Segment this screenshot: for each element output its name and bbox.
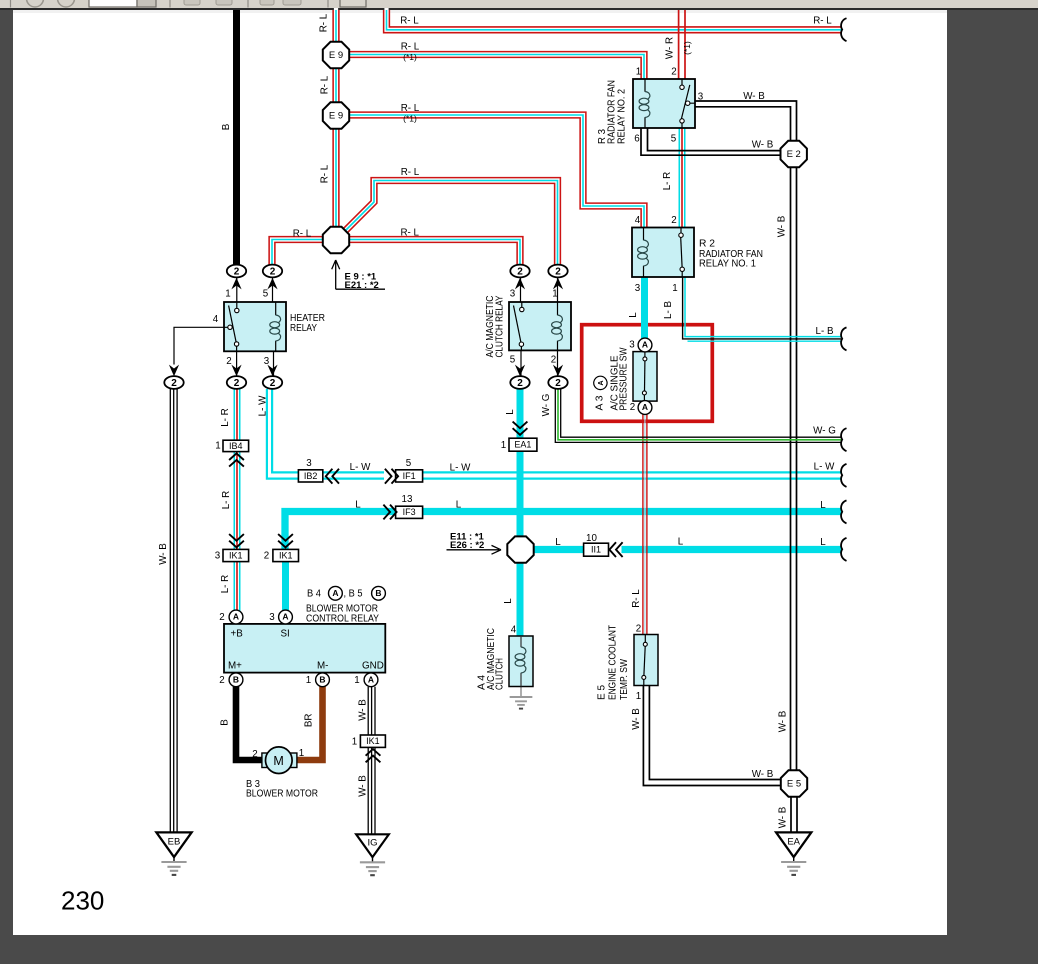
svg-text:L: L	[678, 537, 684, 548]
svg-text:, B 5: , B 5	[344, 589, 363, 600]
svg-text:L: L	[555, 537, 561, 548]
arrow into heater pin2 oval	[231, 365, 241, 377]
wire R-L E9 upper to R3 pin1	[349, 55, 644, 81]
svg-text:(*1): (*1)	[682, 41, 692, 55]
svg-text:W- B: W- B	[158, 543, 169, 565]
wire L thick A/C relay pin5 to EA1	[517, 389, 524, 439]
svg-text:W- R: W- R	[665, 37, 676, 59]
svg-text:L- B: L- B	[663, 301, 674, 319]
svg-text:IF1: IF1	[403, 471, 416, 481]
svg-text:5: 5	[671, 134, 677, 145]
wire R-L top corner to right edge	[387, 8, 843, 30]
arrow into heater pin5	[267, 278, 277, 290]
svg-text:RELAY NO. 1: RELAY NO. 1	[699, 259, 756, 270]
svg-text:2: 2	[630, 402, 635, 413]
svg-text:W- B: W- B	[778, 806, 789, 828]
svg-text:3: 3	[635, 283, 641, 294]
svg-text:IK1: IK1	[229, 550, 243, 560]
svg-text:BR: BR	[304, 713, 315, 727]
svg-text:M+: M+	[228, 661, 242, 672]
svg-text:L- W: L- W	[350, 462, 371, 473]
svg-text:L: L	[456, 500, 462, 511]
svg-text:L- W: L- W	[258, 395, 269, 416]
wire L thick IK1 to blower relay pin3	[282, 562, 289, 611]
svg-text:W- B: W- B	[357, 699, 368, 721]
svg-text:A: A	[332, 588, 338, 598]
pin stubs between ovals and relay boxes	[237, 278, 558, 377]
arrow into A/C pin3	[515, 278, 525, 290]
svg-text:W- B: W- B	[777, 215, 788, 237]
wire L thick junction to II1	[534, 546, 585, 553]
svg-text:A: A	[368, 675, 374, 685]
arrow into A/C pin5 oval	[515, 365, 525, 377]
connector oval 2 heater pin4 branch	[164, 376, 183, 389]
connector oval 2 heater pin1	[227, 265, 246, 278]
ground triangle EB	[156, 832, 191, 857]
wire L thick EA1 to junction E11	[517, 451, 524, 537]
chevron right of II1	[609, 542, 622, 557]
chevron right of IB2	[326, 469, 339, 484]
svg-text:4: 4	[635, 215, 641, 226]
svg-text:1: 1	[215, 441, 220, 452]
wire L-B R2 pin1 to right edge	[683, 277, 841, 341]
svg-text:L- W: L- W	[814, 462, 835, 473]
svg-text:L: L	[355, 500, 361, 511]
svg-text:1: 1	[636, 67, 641, 78]
svg-text:4: 4	[213, 314, 219, 325]
svg-text:E 9: E 9	[329, 111, 343, 122]
connector box IK1 right	[273, 549, 299, 561]
svg-text:L- R: L- R	[221, 491, 232, 510]
continuation hook L mid	[841, 500, 846, 523]
arrow into A/C pin1	[553, 278, 563, 290]
wire R-L pressure SW to coolant temp SW	[643, 414, 647, 635]
ground triangle EA	[776, 832, 811, 857]
wire W-B IK1 to IG	[368, 748, 375, 835]
svg-text:CLUTCH: CLUTCH	[495, 658, 506, 690]
svg-text:EA1: EA1	[514, 440, 531, 450]
svg-text:1: 1	[354, 675, 359, 686]
octagon E9 lower	[323, 102, 349, 128]
connector oval 2 A/C relay pin1	[548, 265, 567, 278]
wire L-R R3 pin5 to R2 pin2	[679, 128, 686, 228]
continuation hook W-G	[841, 428, 846, 451]
wire L-R IB4 to IK1	[234, 452, 241, 550]
relay HEATER RELAY box	[224, 302, 286, 351]
svg-text:2: 2	[671, 215, 676, 226]
coil R3 relay	[639, 92, 650, 118]
pin A circle top of pressure SW	[638, 338, 652, 352]
note leader E9/E21	[332, 260, 385, 289]
circle A blower relay pin2	[229, 610, 243, 624]
switch E5 ENGINE COOLANT TEMP SW box	[634, 635, 658, 686]
arrow into heater pin4 oval	[169, 365, 179, 377]
svg-text:W- B: W- B	[752, 140, 774, 151]
svg-text:E 2: E 2	[787, 149, 801, 160]
svg-text:M: M	[273, 754, 283, 768]
connector oval 2 A/C relay pin2	[548, 376, 567, 389]
svg-text:W- B: W- B	[778, 710, 789, 732]
svg-text:1: 1	[352, 737, 357, 748]
chevron above EA1	[513, 422, 528, 435]
svg-text:M-: M-	[317, 661, 328, 672]
arrow into heater pin1	[231, 278, 241, 290]
svg-text:A: A	[233, 612, 239, 622]
chevron left of IF3	[383, 505, 396, 520]
svg-text:3: 3	[264, 356, 270, 367]
svg-text:R- L: R- L	[401, 167, 420, 178]
wire L-W IF1 to right edge	[423, 472, 841, 478]
wire R-L E9 to E9	[332, 68, 339, 103]
svg-text:IB2: IB2	[304, 471, 318, 481]
connector oval 2 A/C relay pin3	[510, 265, 529, 278]
svg-text:R- L: R- L	[813, 15, 832, 26]
svg-text:L- W: L- W	[450, 463, 471, 474]
octagon E5	[781, 770, 807, 796]
svg-text:1: 1	[306, 675, 311, 686]
svg-text:L: L	[503, 598, 514, 604]
wire R-L junction to A/C relay pin3	[350, 240, 521, 266]
continuation hook L-W	[841, 464, 846, 487]
wire L-R heater pin2 to IB4	[234, 389, 241, 441]
svg-text:(*1): (*1)	[403, 114, 417, 124]
wire R-L E9 to junction	[332, 129, 339, 228]
arrow into heater pin3 oval	[267, 365, 277, 377]
svg-text:1: 1	[636, 691, 641, 702]
svg-text:2: 2	[219, 612, 224, 623]
svg-text:IK1: IK1	[279, 550, 293, 560]
wire L-R IK1 to blower relay pin2	[234, 562, 241, 611]
svg-text:B: B	[220, 719, 231, 726]
circle B blower relay M+	[229, 673, 243, 687]
wire W-B R3 pin3 to E2	[695, 101, 797, 142]
text layer	[61, 13, 836, 915]
relay R2 RADIATOR FAN RELAY NO.1 box	[632, 228, 694, 278]
svg-text:IF3: IF3	[403, 507, 416, 517]
circle A label of A3	[594, 376, 607, 389]
svg-text:W- G: W- G	[813, 425, 836, 436]
continuation hook R-L top right	[841, 18, 846, 41]
coil A/C clutch relay	[552, 315, 563, 341]
svg-text:3: 3	[215, 551, 221, 562]
svg-text:PRESSURE SW: PRESSURE SW	[619, 347, 630, 410]
wire L thick junction to A4 clutch	[517, 562, 524, 637]
svg-text:R- L: R- L	[631, 589, 642, 608]
svg-text:1: 1	[672, 283, 677, 294]
svg-text:1: 1	[501, 440, 506, 451]
highlight box around A/C single pressure SW	[582, 325, 713, 422]
svg-text:E 5: E 5	[597, 685, 608, 700]
svg-text:R 2: R 2	[699, 239, 715, 250]
svg-text:BLOWER MOTOR: BLOWER MOTOR	[246, 789, 318, 800]
wire L thick R2 pin3 to pressure SW	[641, 277, 648, 340]
components layer	[156, 18, 846, 875]
svg-text:A: A	[642, 340, 648, 350]
svg-text:R- L: R- L	[401, 41, 420, 52]
motor B3 blower motor	[262, 753, 268, 768]
svg-text:5: 5	[510, 355, 516, 366]
svg-text:R- L: R- L	[293, 228, 312, 239]
connector oval 2 heater pin5	[263, 265, 282, 278]
wire W-B E2 down to E5 connector	[791, 167, 797, 772]
connector box II1	[584, 543, 609, 556]
svg-text:230: 230	[61, 886, 104, 916]
wire BR blower relay M- to motor	[297, 685, 323, 760]
wire heater pin4 to left branch	[174, 327, 224, 364]
svg-text:EB: EB	[168, 836, 181, 847]
svg-text:3: 3	[510, 289, 516, 300]
svg-text:2: 2	[636, 623, 641, 634]
wire L thick corner to IF3	[285, 512, 396, 551]
svg-text:13: 13	[402, 494, 413, 505]
circle B label B5	[372, 586, 386, 600]
svg-text:R- L: R- L	[320, 75, 331, 94]
svg-text:R- L: R- L	[401, 103, 420, 114]
svg-text:B: B	[319, 675, 325, 685]
wire W-B left heater pin4 branch to EB	[170, 389, 177, 832]
svg-text:4: 4	[511, 625, 517, 636]
svg-text:A 3: A 3	[595, 395, 606, 410]
relay R3 RADIATOR FAN RELAY NO.2 box	[633, 79, 695, 128]
connector box IK1 left	[223, 549, 249, 561]
wire R-L top to E9	[332, 8, 339, 43]
wire R-L E9 lower to R2 pin4	[349, 115, 644, 228]
svg-text:E26 : *2: E26 : *2	[450, 540, 484, 551]
A4 A/C magnetic clutch box	[509, 636, 533, 687]
svg-text:CLUTCH RELAY: CLUTCH RELAY	[495, 295, 506, 357]
wire R-L junction diagonal to A/C relay pin1	[346, 181, 558, 266]
octagon junction E9/E21	[323, 227, 349, 253]
connector oval 2 A/C relay pin5	[510, 376, 529, 389]
continuation hook L lower	[841, 538, 846, 561]
wire B thick top to heater oval	[233, 10, 240, 266]
svg-text:IB4: IB4	[229, 441, 243, 451]
svg-text:3: 3	[629, 340, 635, 351]
octagon junction E11/E26	[507, 536, 533, 562]
svg-text:GND: GND	[362, 661, 384, 672]
svg-text:L- B: L- B	[816, 326, 834, 337]
svg-text:R- L: R- L	[400, 227, 419, 238]
octagon E2	[781, 141, 807, 167]
svg-text:3: 3	[698, 92, 704, 103]
connector box EA1	[509, 438, 537, 451]
svg-text:W- G: W- G	[541, 394, 552, 417]
svg-text:3: 3	[306, 458, 312, 469]
svg-text:2: 2	[226, 356, 231, 367]
svg-text:TEMP. SW: TEMP. SW	[619, 659, 630, 700]
svg-text:1: 1	[225, 289, 230, 300]
svg-text:L- R: L- R	[220, 408, 231, 427]
wire W-B R3 pin6 to E2	[641, 128, 782, 155]
coil A4 clutch	[515, 647, 526, 673]
svg-text:W- B: W- B	[743, 91, 765, 102]
svg-text:EA: EA	[787, 836, 800, 847]
circle B blower relay M-	[316, 673, 330, 687]
wire W-B coolant temp SW to E5 connector	[643, 686, 782, 786]
svg-text:L: L	[505, 409, 516, 415]
connector box IB2	[298, 470, 322, 482]
svg-text:IG: IG	[367, 838, 377, 849]
svg-text:CONTROL RELAY: CONTROL RELAY	[306, 614, 379, 625]
svg-text:2: 2	[219, 675, 224, 686]
octagon E9 upper	[323, 42, 349, 68]
circle A label B4	[329, 586, 343, 600]
connector box IF1	[396, 470, 423, 482]
svg-text:IK1: IK1	[366, 736, 380, 746]
svg-text:2: 2	[252, 749, 257, 760]
svg-text:W- B: W- B	[357, 775, 368, 797]
svg-text:R- L: R- L	[400, 15, 419, 26]
svg-text:E21 : *2: E21 : *2	[345, 280, 379, 291]
svg-text:RELAY NO. 2: RELAY NO. 2	[616, 89, 627, 144]
chevron above IK1 left	[229, 534, 244, 547]
wire L thick IF3 to right edge	[423, 508, 842, 515]
continuation hook L-B	[841, 327, 846, 350]
chevron below IB4	[229, 453, 244, 466]
pin A circle bottom of pressure SW	[638, 401, 652, 415]
ground triangle IG	[356, 834, 389, 857]
svg-text:L: L	[628, 312, 639, 318]
note leader E11/E26 arrow	[447, 545, 502, 554]
svg-text:R- L: R- L	[320, 164, 331, 183]
wire L-W heater pin3 corner to IB2	[267, 389, 299, 479]
svg-text:2: 2	[551, 355, 556, 366]
svg-text:2: 2	[671, 67, 676, 78]
wire R-L junction to heater pin5	[272, 240, 323, 266]
connector box IB4	[223, 440, 249, 451]
svg-text:A: A	[282, 612, 288, 622]
svg-text:W- B: W- B	[752, 769, 774, 780]
svg-text:ENGINE COOLANT: ENGINE COOLANT	[608, 625, 619, 700]
wire L-W IB2 to IF1	[323, 472, 384, 478]
chevron above IK1 right	[278, 534, 293, 547]
svg-text:1: 1	[299, 748, 304, 759]
svg-text:+B: +B	[231, 629, 244, 640]
svg-text:E 9: E 9	[329, 50, 343, 61]
svg-text:RELAY: RELAY	[290, 323, 317, 334]
circle A blower relay pin3	[279, 610, 293, 624]
svg-text:6: 6	[634, 134, 640, 145]
wire L thick II1 to right edge	[622, 546, 842, 553]
relay B4/B5 blower motor control relay box	[224, 624, 385, 673]
svg-text:A: A	[598, 380, 605, 385]
svg-text:R- L: R- L	[319, 13, 330, 32]
svg-text:10: 10	[586, 533, 597, 544]
wires layer	[170, 8, 842, 834]
A/C single pressure SW body	[633, 352, 657, 402]
svg-text:5: 5	[406, 458, 412, 469]
coil heater relay	[270, 315, 281, 341]
wire W-B E5 connector to EA	[791, 796, 797, 832]
svg-text:B 4: B 4	[307, 589, 321, 600]
svg-text:L- R: L- R	[662, 172, 673, 191]
wire W-R top to R3 pin2	[679, 10, 685, 85]
connector oval 2 heater pin2	[227, 376, 246, 389]
ground symbol under A4 clutch	[510, 697, 533, 709]
svg-text:(*1): (*1)	[403, 52, 417, 62]
connector box IK1 bottom	[360, 735, 385, 747]
coil R2 relay	[638, 240, 649, 266]
svg-text:L- R: L- R	[220, 575, 231, 594]
svg-text:SI: SI	[281, 629, 290, 640]
svg-text:B: B	[233, 675, 239, 685]
circle A blower relay GND	[364, 673, 378, 687]
relay A/C MAGNETIC CLUTCH RELAY box	[509, 302, 571, 350]
svg-text:A: A	[642, 402, 648, 412]
svg-text:2: 2	[264, 551, 269, 562]
wire A4 clutch to ground	[520, 687, 522, 696]
svg-text:B: B	[375, 588, 381, 598]
svg-text:L: L	[820, 537, 826, 548]
svg-text:W- B: W- B	[631, 708, 642, 730]
svg-text:1: 1	[552, 289, 557, 300]
svg-text:B: B	[221, 123, 232, 130]
connector oval 2 heater pin3	[263, 376, 282, 389]
svg-text:5: 5	[263, 289, 269, 300]
connector box IF3	[396, 506, 423, 518]
chevron below IK1 bottom	[366, 749, 381, 762]
svg-text:E 5: E 5	[787, 779, 801, 790]
wire B blower relay M+ to motor	[236, 685, 263, 760]
svg-text:3: 3	[269, 612, 275, 623]
wire W-B blower GND to IK1	[368, 687, 375, 735]
arrow into A/C pin2 oval	[553, 365, 563, 377]
svg-text:II1: II1	[591, 545, 601, 555]
svg-text:L: L	[820, 500, 826, 511]
chevron left of IF1	[385, 469, 398, 484]
wire W-G A/C relay pin2 to right edge	[555, 389, 841, 442]
